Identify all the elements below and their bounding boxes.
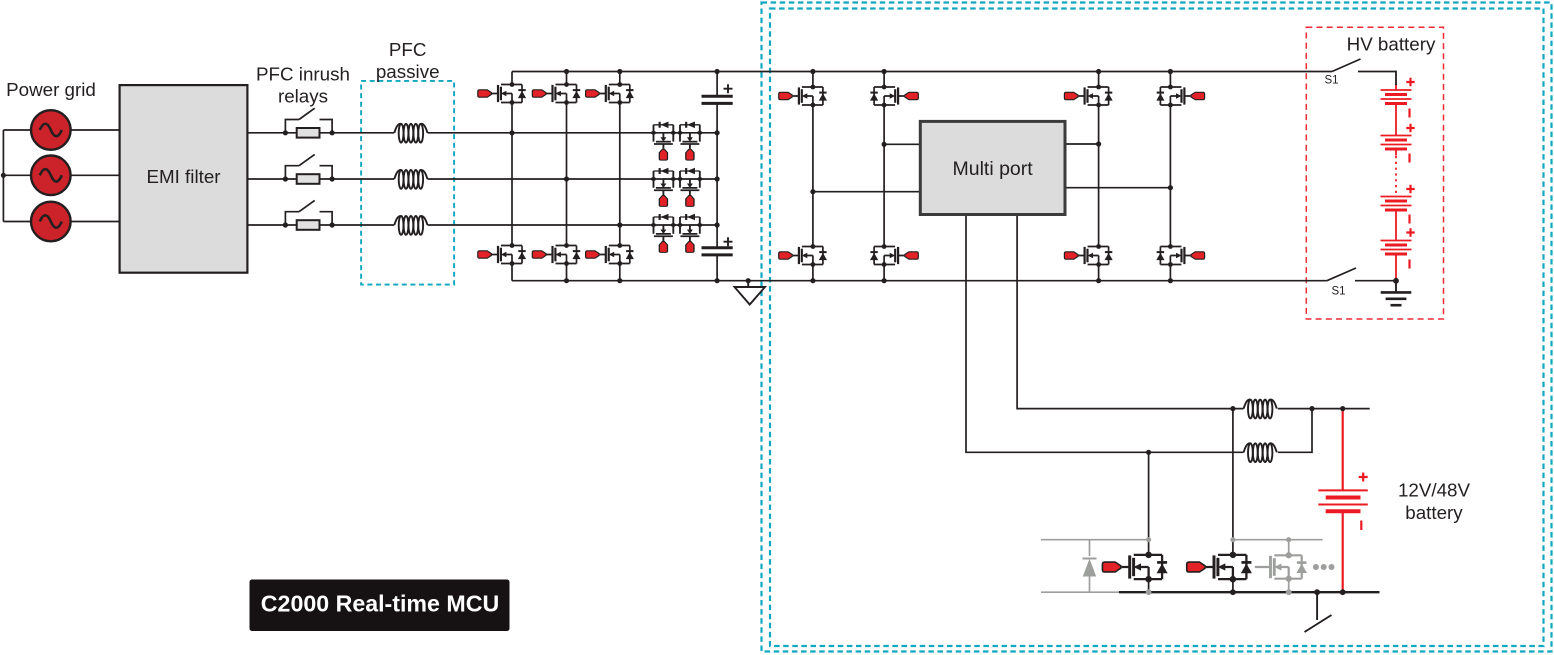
svg-text:S1: S1	[1325, 75, 1339, 87]
svg-text:relays: relays	[278, 86, 328, 107]
svg-text:passive: passive	[376, 61, 440, 82]
svg-text:Multi port: Multi port	[952, 158, 1033, 180]
svg-text:PFC inrush: PFC inrush	[256, 64, 350, 85]
svg-text:S1: S1	[1332, 286, 1346, 298]
svg-text:EMI filter: EMI filter	[146, 166, 220, 187]
svg-text:HV battery: HV battery	[1347, 34, 1436, 55]
svg-text:12V/48V: 12V/48V	[1398, 480, 1471, 501]
svg-text:C2000 Real-time MCU: C2000 Real-time MCU	[261, 591, 499, 617]
svg-text:Power grid: Power grid	[6, 79, 96, 100]
svg-text:PFC: PFC	[389, 39, 427, 60]
svg-text:battery: battery	[1405, 502, 1463, 523]
